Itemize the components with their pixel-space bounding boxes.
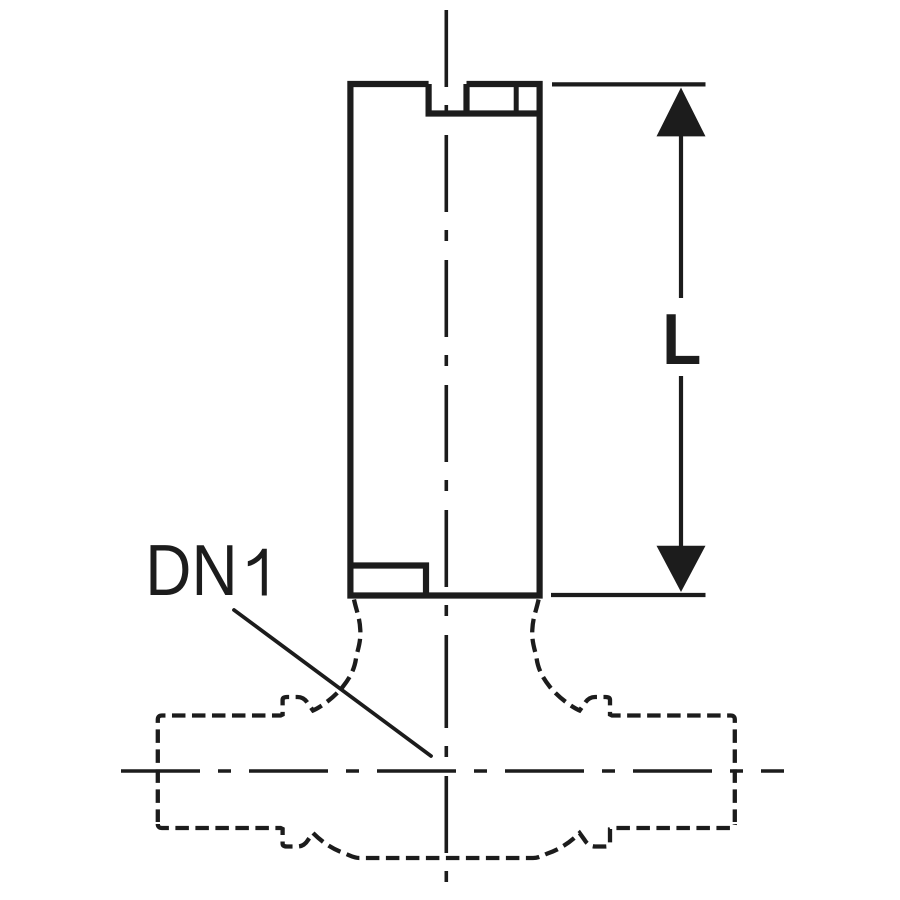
svg-text:DN: DN (145, 531, 237, 611)
svg-text:L: L (662, 299, 701, 379)
